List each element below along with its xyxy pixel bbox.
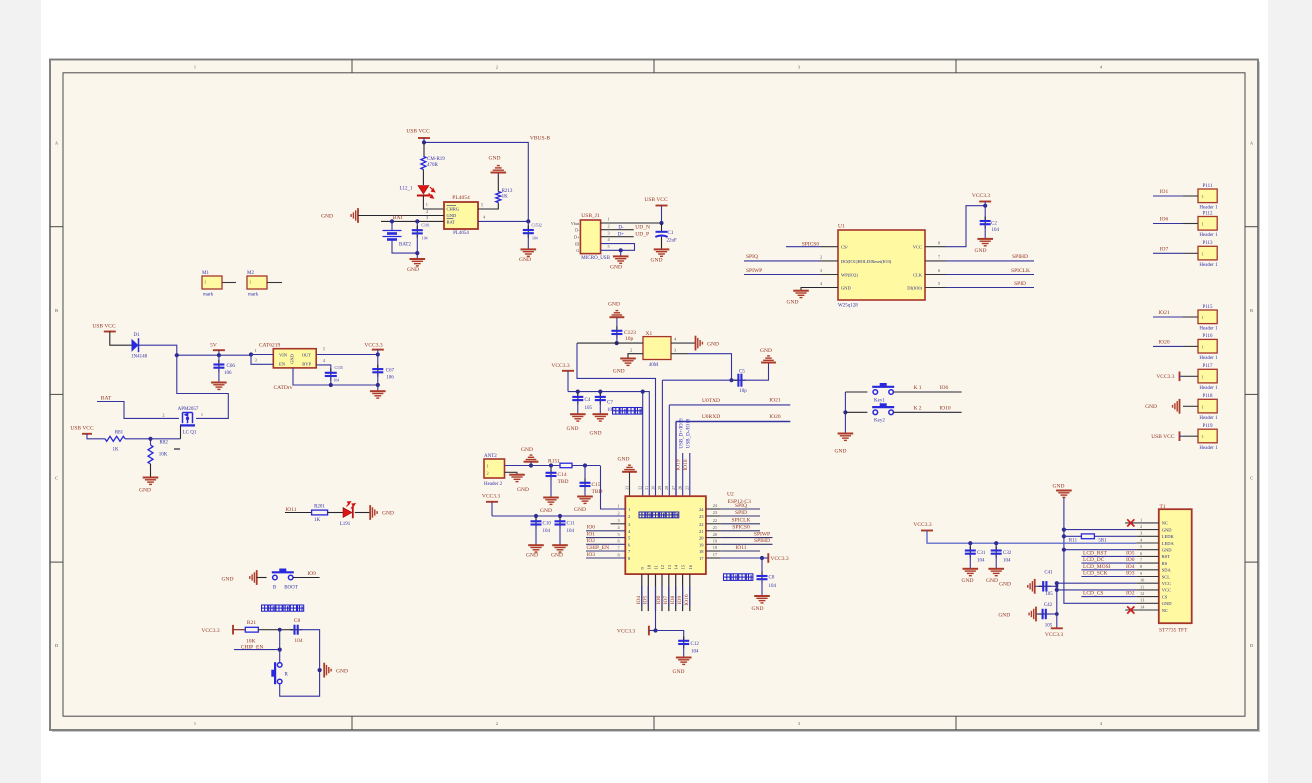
wire to C12 — [656, 631, 684, 641]
node ant gnd — [529, 463, 533, 467]
node VBUS cap — [526, 219, 530, 223]
wire LED to gnd — [355, 512, 370, 514]
svg-text:9: 9 — [1140, 571, 1142, 576]
svg-text:M2: M2 — [247, 271, 254, 276]
svg-text:IO0: IO0 — [1126, 557, 1135, 563]
svg-text:SPIWP: SPIWP — [746, 268, 762, 274]
capacitor C5 10p — [732, 379, 739, 381]
svg-text:10p: 10p — [625, 336, 634, 342]
svg-text:GND: GND — [290, 353, 295, 363]
gnd below battery — [416, 253, 418, 259]
text module name — [639, 512, 679, 518]
wire XIN to crystal — [617, 342, 643, 344]
wire R151 to module — [572, 465, 601, 467]
gnd below C14 — [543, 498, 559, 505]
wire pin5 OUT — [316, 354, 378, 356]
svg-text:G: G — [576, 248, 579, 253]
gnd below keys — [838, 434, 854, 441]
wire C8 loop — [280, 630, 320, 697]
node C7 — [598, 390, 602, 394]
wire IO11 to R201 — [285, 512, 311, 514]
svg-text:20: 20 — [699, 536, 704, 541]
svg-text:P112: P112 — [1202, 211, 1213, 216]
svg-text:C14: C14 — [558, 472, 567, 478]
wire BAT row — [381, 220, 444, 222]
power flag VCC3.3 pin17 — [767, 553, 769, 563]
node C31 — [968, 541, 972, 545]
svg-text:NC: NC — [1162, 521, 1168, 526]
svg-text:1: 1 — [1202, 194, 1204, 199]
svg-text:C: C — [1250, 476, 1253, 481]
gnd above C5 — [761, 356, 776, 363]
svg-text:14: 14 — [674, 564, 679, 569]
svg-text:SPIQ: SPIQ — [735, 503, 747, 509]
svg-text:C67: C67 — [386, 369, 395, 374]
node VCC3.3 C2 — [983, 204, 987, 208]
svg-text:VCC3.3: VCC3.3 — [364, 342, 382, 348]
svg-text:5: 5 — [1140, 544, 1142, 549]
svg-text:2: 2 — [618, 510, 620, 515]
svg-text:GND: GND — [574, 507, 586, 513]
svg-text:32: 32 — [638, 486, 643, 490]
node C10 — [534, 514, 538, 518]
svg-text:3: 3 — [674, 347, 676, 352]
svg-text:104: 104 — [334, 379, 340, 383]
svg-text:GND: GND — [613, 368, 625, 374]
svg-text:BAT: BAT — [447, 220, 456, 225]
svg-text:SDA: SDA — [1162, 568, 1172, 573]
svg-text:1: 1 — [194, 64, 196, 69]
svg-text:IO5: IO5 — [1126, 550, 1135, 556]
svg-text:3: 3 — [820, 268, 822, 273]
gnd below C1532 — [521, 249, 537, 256]
svg-text:IO8: IO8 — [670, 595, 676, 604]
svg-text:23: 23 — [699, 514, 704, 519]
svg-text:D: D — [1250, 643, 1253, 648]
svg-text:IO4: IO4 — [1126, 564, 1135, 570]
capacitor C8 104 — [761, 558, 763, 576]
svg-text:GND: GND — [1145, 404, 1157, 410]
svg-text:IO3: IO3 — [587, 552, 596, 558]
svg-text:SPID: SPID — [1014, 281, 1026, 287]
resistor R82 10K — [150, 439, 152, 445]
wire pin4 pin5 loop — [601, 244, 635, 251]
svg-text:GND: GND — [986, 578, 998, 584]
right margin strip — [1268, 0, 1312, 783]
svg-text:5: 5 — [938, 281, 940, 286]
text filter caps — [613, 408, 642, 415]
svg-text:PL4054: PL4054 — [452, 195, 470, 201]
svg-text:USB VCC: USB VCC — [406, 129, 430, 135]
svg-text:BAT: BAT — [101, 395, 112, 401]
svg-text:1: 1 — [194, 721, 196, 726]
svg-text:VCC3.3: VCC3.3 — [1156, 374, 1174, 380]
wire pin2 D- — [601, 229, 634, 231]
svg-text:R151: R151 — [548, 459, 560, 465]
wire pin5 gnd — [1062, 548, 1066, 552]
svg-text:C4: C4 — [585, 398, 591, 403]
svg-text:R21: R21 — [247, 620, 256, 626]
header P112 — [1198, 217, 1217, 231]
no connect pin1 — [1127, 519, 1134, 526]
svg-text:1: 1 — [1202, 434, 1204, 439]
svg-text:C1: C1 — [668, 231, 674, 236]
svg-text:CM-R19: CM-R19 — [427, 157, 445, 162]
svg-text:SPIHD: SPIHD — [754, 538, 770, 544]
node bottom vcc — [653, 628, 657, 632]
svg-text:2: 2 — [608, 223, 610, 228]
svg-text:IO5: IO5 — [643, 595, 649, 604]
svg-text:C135: C135 — [335, 366, 343, 370]
svg-text:VCC: VCC — [1162, 581, 1171, 586]
node VCC pin rail — [641, 390, 645, 394]
pin wire P118 — [1183, 405, 1198, 407]
resistor R213 1K — [478, 203, 498, 210]
pin wire P117 — [1183, 375, 1198, 377]
svg-text:31: 31 — [644, 486, 649, 490]
svg-text:VIN: VIN — [279, 352, 288, 357]
svg-text:3: 3 — [798, 721, 800, 726]
svg-text:Header 1: Header 1 — [1199, 446, 1218, 451]
svg-text:IO7: IO7 — [1160, 247, 1169, 253]
svg-text:VCC3.3: VCC3.3 — [913, 522, 931, 528]
svg-text:GND: GND — [447, 213, 457, 218]
svg-text:IO2: IO2 — [587, 538, 596, 544]
svg-text:GND: GND — [1053, 483, 1065, 489]
svg-text:IO6: IO6 — [1160, 217, 1169, 223]
led L12_1 — [422, 170, 424, 186]
svg-text:10: 10 — [1140, 578, 1144, 583]
inner border — [63, 73, 1245, 716]
pin stubs module left — [611, 523, 626, 525]
svg-text:C8: C8 — [769, 576, 775, 581]
svg-text:P115: P115 — [1202, 305, 1213, 310]
button RESET vertical — [275, 662, 282, 684]
svg-text:LC Q1: LC Q1 — [183, 431, 197, 436]
capacitor C66 106 — [218, 355, 220, 364]
svg-text:SCL: SCL — [1162, 574, 1171, 579]
svg-text:2: 2 — [820, 255, 822, 260]
svg-text:GND: GND — [707, 341, 719, 347]
svg-text:3: 3 — [608, 230, 610, 235]
svg-text:IO19: IO19 — [676, 459, 682, 471]
wires module right nets — [721, 508, 760, 510]
node gate divider — [148, 437, 152, 441]
svg-text:GND: GND — [618, 456, 630, 462]
svg-text:R82: R82 — [160, 440, 169, 445]
wire node to gate — [151, 438, 181, 440]
svg-text:1: 1 — [1140, 517, 1142, 522]
svg-text:1: 1 — [487, 463, 489, 468]
wire pin4 GND — [801, 288, 838, 291]
gnd below U1 pin4 — [793, 291, 809, 298]
svg-text:LEDK: LEDK — [1162, 534, 1175, 539]
svg-text:RS: RS — [1162, 561, 1168, 566]
svg-text:GND: GND — [407, 267, 419, 273]
node gnd reset — [318, 668, 322, 672]
battery BAT2 — [391, 221, 393, 230]
svg-text:VCC: VCC — [1162, 588, 1171, 593]
svg-text:GND: GND — [139, 487, 151, 493]
resistor R201 1K — [312, 510, 328, 515]
svg-text:Header 1: Header 1 — [1199, 386, 1218, 391]
svg-text:15: 15 — [681, 564, 686, 569]
wire LCD_RST — [1081, 555, 1136, 557]
svg-text:13: 13 — [667, 564, 672, 569]
gnd below C31 — [963, 569, 979, 576]
pin wire P119 — [1183, 435, 1198, 437]
svg-text:10p: 10p — [739, 389, 747, 394]
pin wire P112 — [1183, 223, 1198, 225]
svg-text:GND: GND — [526, 552, 538, 558]
svg-text:CHRG: CHRG — [447, 207, 460, 212]
pin wire M2 — [267, 282, 282, 284]
svg-text:D: D — [55, 643, 58, 648]
svg-text:UD_N: UD_N — [635, 224, 650, 230]
svg-text:IO1: IO1 — [587, 531, 596, 537]
svg-text:P111: P111 — [1203, 184, 1213, 189]
svg-text:TBD: TBD — [558, 479, 569, 485]
wire pin4 BYP — [316, 365, 331, 373]
svg-text:2: 2 — [496, 721, 498, 726]
wire pin5 SPID — [925, 287, 946, 289]
svg-text:11: 11 — [1140, 584, 1144, 589]
wire USB_D- — [689, 453, 691, 496]
node reg out — [376, 352, 380, 356]
svg-text:22: 22 — [713, 518, 717, 523]
wire pin4 gnd — [671, 342, 695, 344]
svg-text:3: 3 — [618, 518, 620, 523]
svg-text:B: B — [55, 308, 58, 313]
svg-text:106: 106 — [224, 371, 232, 376]
svg-text:33: 33 — [624, 486, 629, 490]
svg-text:CLK: CLK — [913, 272, 923, 277]
svg-text:GND: GND — [787, 300, 799, 306]
capacitor C10 104 — [535, 516, 537, 521]
wire key gnd rail — [844, 392, 846, 433]
svg-text:22: 22 — [699, 522, 704, 527]
svg-text:SPID: SPID — [735, 510, 747, 516]
gnd below ant pin2 — [509, 475, 525, 482]
wire pin1 Vbus — [601, 222, 662, 224]
svg-text:USB_D-/IO18: USB_D-/IO18 — [687, 418, 692, 448]
net label IO7 — [1153, 252, 1183, 254]
svg-text:IO20: IO20 — [1158, 340, 1170, 346]
gnd below C10 — [528, 545, 544, 552]
svg-text:29: 29 — [657, 486, 662, 490]
wire pin2 SPIQ — [744, 260, 820, 262]
svg-text:VCC3.3: VCC3.3 — [972, 193, 990, 199]
svg-text:1K: 1K — [112, 448, 119, 453]
svg-text:GND: GND — [1162, 527, 1172, 532]
svg-text:C1532: C1532 — [532, 223, 542, 227]
node C4 — [576, 390, 580, 394]
svg-text:APM2057: APM2057 — [178, 407, 199, 412]
svg-text:40M: 40M — [649, 363, 659, 368]
node usb gnd — [619, 248, 623, 252]
chip U2 ESP32-C3 — [625, 496, 706, 574]
svg-text:VCC3.3: VCC3.3 — [1045, 632, 1063, 638]
svg-text:LCD_MOSI: LCD_MOSI — [1083, 564, 1111, 570]
border ticks — [50, 60, 1258, 731]
svg-text:470R: 470R — [427, 163, 439, 168]
wire USB VCC down — [661, 206, 663, 224]
svg-text:Vbus: Vbus — [571, 221, 580, 226]
svg-text:C2: C2 — [991, 221, 997, 226]
node BAT battery — [390, 219, 394, 223]
wire pin3 D+ — [601, 236, 634, 238]
svg-text:12: 12 — [660, 565, 665, 570]
svg-text:GND: GND — [517, 487, 529, 493]
svg-text:1: 1 — [1202, 344, 1204, 349]
svg-text:Key1: Key1 — [874, 398, 885, 403]
svg-text:K 1: K 1 — [913, 385, 921, 391]
svg-text:IO3: IO3 — [1126, 571, 1135, 577]
header P118 — [1198, 399, 1217, 413]
node C32 — [994, 541, 998, 545]
svg-text:VCC3.3: VCC3.3 — [201, 628, 219, 634]
wire LCD_CS — [1081, 596, 1136, 598]
wire R81 to node — [125, 438, 151, 440]
svg-text:22uF: 22uF — [667, 238, 678, 243]
capacitor C42 105 — [1036, 613, 1043, 615]
svg-text:Header 1: Header 1 — [1199, 327, 1218, 332]
svg-text:C5: C5 — [739, 370, 745, 375]
wire XIN to module — [577, 342, 617, 344]
no connect pin14 — [1127, 606, 1134, 613]
svg-text:21: 21 — [699, 529, 704, 534]
svg-text:8: 8 — [1140, 564, 1142, 569]
svg-text:CS/: CS/ — [841, 245, 849, 250]
capacitor C41 105 — [1035, 585, 1044, 587]
svg-text:C101: C101 — [422, 223, 430, 227]
svg-text:GND: GND — [760, 348, 772, 354]
svg-text:GND: GND — [1162, 601, 1172, 606]
svg-text:C: C — [55, 476, 58, 481]
svg-text:USB VCC: USB VCC — [70, 425, 94, 431]
node pin1 C1 — [659, 221, 663, 225]
svg-text:8: 8 — [938, 240, 940, 245]
node XOUT C5 — [729, 378, 733, 382]
power flag VCC3.3 — [1179, 372, 1181, 382]
svg-text:U0RXD: U0RXD — [702, 414, 720, 420]
capacitor C8 reset 104 — [290, 629, 302, 631]
gnd right of LED — [370, 505, 377, 520]
svg-text:DI(IO0): DI(IO0) — [907, 286, 922, 291]
net label IO20 — [1153, 345, 1183, 347]
capacitor C1 22uF — [661, 223, 663, 232]
svg-text:1: 1 — [201, 412, 203, 417]
svg-text:2: 2 — [162, 413, 164, 418]
svg-text:mark: mark — [248, 293, 259, 298]
svg-text:5: 5 — [618, 532, 620, 537]
svg-text:10: 10 — [646, 564, 651, 569]
capacitor C101 104 — [415, 219, 419, 223]
svg-text:SPIHD: SPIHD — [1012, 254, 1028, 260]
capacitor C67 106 — [377, 355, 379, 369]
svg-text:USB_J1: USB_J1 — [581, 213, 600, 219]
svg-text:C31: C31 — [977, 551, 986, 556]
led L191 — [343, 508, 352, 518]
svg-text:1: 1 — [204, 280, 206, 285]
wire to VBUS-B — [424, 142, 528, 221]
svg-text:104: 104 — [294, 638, 303, 644]
wire pin3 SPIWP — [744, 274, 820, 276]
svg-text:Header 1: Header 1 — [1199, 356, 1218, 361]
wire ant node to R151 — [531, 465, 560, 467]
svg-text:GND: GND — [610, 264, 622, 270]
svg-text:104: 104 — [543, 529, 551, 534]
wire XOUT to module — [662, 379, 731, 381]
capacitor C31 104 — [969, 543, 971, 550]
svg-text:CATDrv: CATDrv — [274, 385, 293, 391]
svg-text:Header 1: Header 1 — [1199, 206, 1218, 211]
polarity dash — [174, 448, 180, 450]
node C15 — [583, 463, 587, 467]
svg-text:CAT6219: CAT6219 — [259, 342, 281, 348]
capacitor C14 TBD — [550, 466, 552, 473]
svg-text:GND: GND — [222, 576, 234, 582]
svg-text:VCC: VCC — [913, 245, 922, 250]
svg-text:2: 2 — [628, 514, 630, 519]
wire LEDA — [927, 531, 1136, 544]
svg-text:R81: R81 — [115, 430, 124, 435]
svg-text:10K: 10K — [159, 452, 168, 457]
gnd below C7 — [593, 414, 609, 421]
wire U0TXD — [669, 404, 790, 406]
capacitor C135 104 — [330, 368, 332, 380]
node USB VCC — [422, 140, 426, 144]
svg-text:C8: C8 — [294, 618, 301, 624]
sheet shadow — [52, 62, 1260, 733]
svg-text:17: 17 — [699, 556, 704, 561]
svg-text:IO18: IO18 — [683, 459, 689, 471]
gnd below C1 — [654, 249, 670, 256]
svg-text:16: 16 — [688, 564, 693, 569]
svg-text:2: 2 — [496, 64, 498, 69]
gnd flag — [1173, 399, 1180, 414]
svg-text:GND: GND — [519, 257, 531, 263]
svg-text:R213: R213 — [502, 189, 513, 194]
node C14 — [549, 463, 553, 467]
wire LCD_MOSI — [1081, 569, 1136, 571]
svg-text:CHIP_EN: CHIP_EN — [587, 545, 610, 551]
svg-text:IO7: IO7 — [663, 595, 669, 604]
net label IO1 — [1153, 195, 1183, 197]
node C11 — [558, 514, 562, 518]
svg-text:104: 104 — [977, 558, 985, 563]
vcc vertical at T1 — [1056, 583, 1058, 628]
chip PL4054 — [444, 202, 478, 229]
svg-text:104: 104 — [691, 649, 699, 654]
svg-text:C15: C15 — [592, 482, 601, 488]
wire LCD_SCK — [1081, 576, 1136, 578]
svg-text:Header 1: Header 1 — [1199, 233, 1218, 238]
svg-text:105: 105 — [585, 406, 593, 411]
svg-text:C10: C10 — [543, 522, 552, 527]
svg-text:1K: 1K — [502, 195, 509, 200]
svg-text:3: 3 — [426, 215, 428, 220]
svg-text:11: 11 — [654, 565, 659, 569]
svg-text:GND: GND — [673, 669, 685, 675]
svg-text:SPICLK: SPICLK — [732, 518, 751, 524]
button BOOT — [272, 572, 294, 580]
svg-text:mark: mark — [203, 293, 214, 298]
svg-text:D-: D- — [575, 228, 580, 233]
svg-text:104: 104 — [422, 236, 428, 240]
wire node to button — [279, 630, 281, 663]
svg-text:5: 5 — [608, 244, 610, 249]
